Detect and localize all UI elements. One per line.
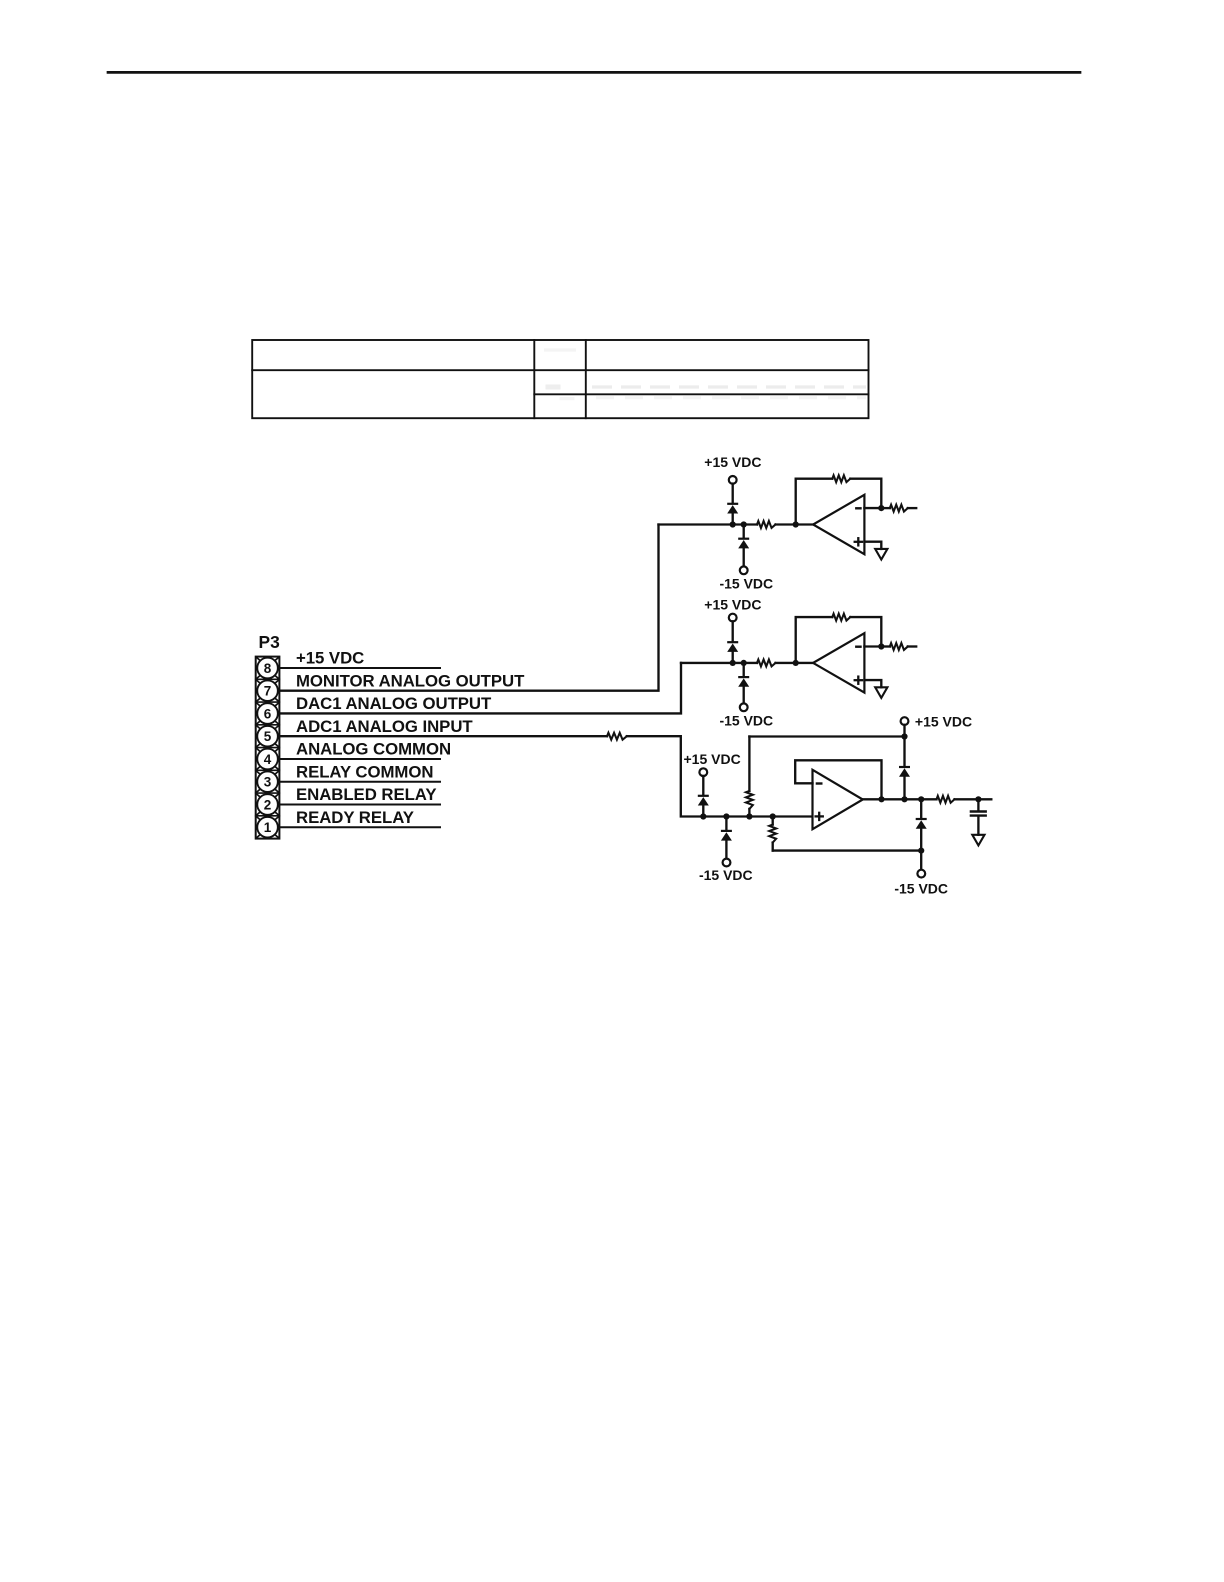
feedback wire U3 (output to inverting input) [795,760,881,799]
wire to output resistor R1c [881,507,890,509]
svg-text:+15 VDC: +15 VDC [915,714,972,730]
op-amp U3 non-inverting pin mark [816,815,823,817]
output resistor R1c [890,505,908,512]
wire resistor R1a to summing node [776,523,814,525]
output resistor R2c [890,643,908,650]
op-amp U2 non-inverting pin mark [855,679,862,681]
-15 VDC terminal (U3 output clamp) [917,870,925,878]
P3 pin 4 circle and number [257,749,278,770]
op-amp U3 inverting pin mark [817,782,821,784]
P3 pin 1 circle and number [257,817,278,838]
inverting input wire (U2) [864,645,881,647]
wire diode CR3b to terminal [725,840,727,859]
faint ghost text row (bottom right cell) [596,396,866,399]
P3 pin 2 circle and number [257,794,278,815]
wire resistor R3c to filter cap [955,798,992,800]
wire diode CR3a to rail [702,805,704,816]
connector P3 corner hatches [257,657,279,837]
inverting input wire (U1) [864,507,881,509]
wire +15 terminal to rail [903,725,905,737]
wire node to clamp diode CR2b [743,663,745,676]
wire diode CR3c to output [903,776,905,799]
junction dot output / +15 clamp [901,796,907,802]
svg-text:RELAY COMMON: RELAY COMMON [296,762,433,781]
op-amp U2 (output on left) [813,633,864,692]
P3 pin 5 circle and number [257,726,278,747]
wire rail to clamp diode CR3b [725,817,727,830]
clamp diode CR1b to -15 VDC [738,538,749,540]
svg-text:MONITOR ANALOG OUTPUT: MONITOR ANALOG OUTPUT [296,671,525,690]
svg-text:5: 5 [264,729,272,744]
+15 VDC terminal (U3 input clamp) [699,768,707,776]
wire: P3 pin 7 MONITOR ANALOG OUTPUT to buffer U1 [279,525,658,691]
wire: P3 pin 6 DAC1 ANALOG OUTPUT to buffer U2 [279,663,681,714]
svg-text:7: 7 [264,684,272,699]
junction dot node / CR2a [730,660,736,666]
junction dot U3 output / feedback [878,796,884,802]
output filter resistor R3c [937,796,955,803]
svg-text:P3: P3 [259,632,281,652]
wire output to clamp diode CR3d [920,799,922,818]
pull-up resistor R3a [746,791,753,809]
+15 supply rail wire (U3) [749,735,904,737]
wire rail to pull-down resistor R3b [772,817,774,825]
svg-text:6: 6 [264,706,272,721]
svg-text:-15 VDC: -15 VDC [719,713,773,729]
output stub wire (U1) [908,507,916,509]
P3 pin 3 wire stub [279,781,440,783]
wire terminal to clamp diode CR2a [732,621,734,641]
connector P3 cell dividers [256,679,280,816]
svg-text:READY RELAY: READY RELAY [296,808,414,827]
svg-text:4: 4 [264,752,272,767]
svg-text:DAC1 ANALOG OUTPUT: DAC1 ANALOG OUTPUT [296,694,492,713]
P3 pin 6 circle and number [257,703,278,724]
junction dot node / CR1a [730,521,736,527]
op-amp U1 (output on left) [813,495,864,554]
resistor R5 on ADC1 input line [607,733,627,740]
+15 VDC terminal (U2) [729,614,737,622]
wire resistor R3a to rail [748,809,750,817]
svg-text:ENABLED RELAY: ENABLED RELAY [296,785,436,804]
pull-down resistor R3b [769,825,776,843]
wire output node to capacitor C1 [977,799,979,810]
op-amp U1 non-inverting pin mark [855,541,862,543]
table row divider (right section) [534,393,868,395]
-15 VDC terminal (U3 input clamp) [723,859,731,867]
svg-text:-15 VDC: -15 VDC [894,881,948,897]
wire rail to pull-up resistor R3a [748,737,750,791]
svg-text:-15 VDC: -15 VDC [699,867,753,883]
wire resistor R2a to summing node [776,662,814,664]
-15 supply rail wire (U3) [773,849,922,851]
wire terminal to clamp diode CR1a [732,484,734,503]
feedback resistor R2b [832,614,850,621]
junction dot rail / CR3a [700,813,706,819]
P3 pin 2 wire stub [279,803,440,805]
U3 output wire [863,798,937,800]
junction dot rail / pull-up resistor R3a [746,813,752,819]
svg-text:+15 VDC: +15 VDC [704,454,761,470]
junction dot inverting input (U1) [878,505,884,511]
junction dot node / CR2b [741,660,747,666]
feedback wire to inverting input (U2) [850,617,881,646]
junction dot summing node (U2) [793,660,799,666]
P3 pin 8 circle and number [257,658,278,679]
P3 pin 1 wire stub [279,826,440,828]
op-amp U2 inverting pin mark [856,646,860,648]
table column divider 1 [533,340,535,418]
ground symbol (U2 non-inverting input) [875,687,887,698]
clamp diode CR3c output to +15 [899,766,910,768]
+15 VDC terminal (U1) [729,476,737,484]
table row divider (full width) [252,369,868,371]
svg-text:+15 VDC: +15 VDC [296,649,364,668]
clamp diode CR3b to -15 VDC [721,830,732,832]
wire diode CR3d to -15 rail [920,828,922,850]
input resistor R2a [757,659,776,666]
junction dot node / CR1b [741,521,747,527]
table outer border [252,340,868,418]
non-inverting input wire (U2) [864,680,881,687]
feedback wire (U1) [796,479,833,525]
wire -15 rail to terminal [920,851,922,870]
output stub wire (U2) [908,645,916,647]
P3 pin 3 circle and number [257,771,278,792]
wire diode CR2b to terminal [743,686,745,703]
ground symbol (filter cap) [972,835,984,846]
input resistor R1a [757,521,776,528]
P3 pin 7 circle and number [257,680,278,701]
junction dot output / filter cap C1 [975,796,981,802]
junction dot -15 rail [918,848,924,854]
P3 pin 8 wire stub [279,667,440,669]
junction dot summing node (U1) [793,521,799,527]
-15 VDC terminal (U1) [740,566,748,574]
non-inverting input wire (U1) [864,542,881,549]
table column divider 2 [585,340,587,418]
clamp diode CR2b to -15 VDC [738,676,749,678]
wire rail to clamp diode CR3c [903,737,905,767]
wire node to input resistor R1a [659,523,758,525]
junction dot rail / CR3b [723,813,729,819]
-15 VDC terminal (U2) [740,703,748,711]
clamp diode CR3a to +15 VDC [698,795,709,797]
svg-text:3: 3 [264,775,272,790]
svg-text:1: 1 [264,820,272,835]
junction dot output / -15 clamp [918,796,924,802]
op-amp U1 inverting pin mark [856,507,860,509]
wire resistor R3b to -15 rail [772,843,774,851]
+15 VDC terminal (U3 output clamp) [901,717,909,725]
wire terminal to clamp diode CR3a [702,776,704,795]
svg-text:+15 VDC: +15 VDC [704,597,761,613]
wire diode CR1b to terminal [743,548,745,567]
clamp diode CR2a to +15 VDC [727,641,738,643]
junction dot rail / pull-down resistor R3b [770,813,776,819]
svg-text:-15 VDC: -15 VDC [719,576,773,592]
wire: ADC1 input line to U3 node [627,736,813,816]
faint ghost marks small column [544,348,576,351]
wire diode CR2a to node [732,651,734,663]
op-amp U3 (buffer) [813,770,863,829]
svg-text:2: 2 [264,797,272,812]
faint ghost text row (middle right cell) [592,385,866,388]
connector P3 body outline [256,657,280,839]
junction dot inverting input (U2) [878,643,884,649]
clamp diode CR1a to +15 VDC [727,503,738,505]
junction dot +15 rail [901,733,907,739]
wire diode CR1a to node [732,513,734,525]
feedback resistor R1b [832,475,850,482]
feedback wire to inverting input (U1) [850,479,881,508]
clamp diode CR3d output to -15 [916,818,927,820]
header rule [108,71,1080,74]
P3 pin 4 wire stub [279,758,440,760]
svg-text:+15 VDC: +15 VDC [684,751,741,767]
feedback wire (U2) [796,617,833,663]
svg-text:8: 8 [264,661,272,676]
ground symbol (U1 non-inverting input) [875,549,887,560]
filter capacitor C1 [971,810,986,812]
wire node to input resistor R2a [681,662,757,664]
wire: P3 pin 5 ADC1 ANALOG INPUT (left segment) [279,735,607,737]
wire to output resistor R2c [881,645,890,647]
svg-text:ANALOG COMMON: ANALOG COMMON [296,740,451,759]
wire node to clamp diode CR1b [743,525,745,538]
svg-text:ADC1 ANALOG INPUT: ADC1 ANALOG INPUT [296,717,473,736]
wire capacitor C1 to ground [977,817,979,835]
